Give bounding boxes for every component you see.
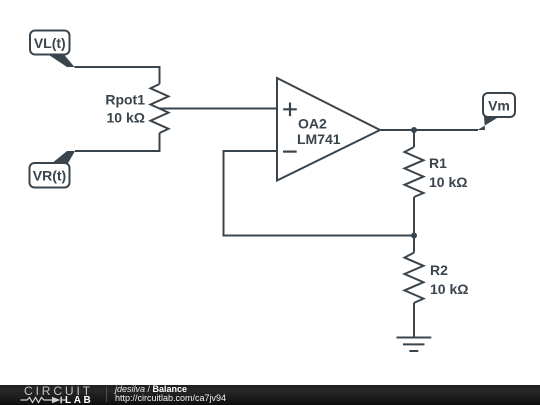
svg-text:Vm: Vm bbox=[488, 98, 510, 114]
CircuitLab logo wordmark CIRCUIT bbox=[24, 386, 93, 396]
svg-text:Rpot1: Rpot1 bbox=[105, 92, 145, 108]
resistor R2 bbox=[405, 253, 424, 303]
wire R2 bottom to ground bbox=[413, 303, 415, 338]
wire output node to R1 top bbox=[413, 130, 415, 147]
svg-text:R1: R1 bbox=[429, 155, 447, 171]
resistor R1 bbox=[405, 147, 424, 197]
svg-text:10 kΩ: 10 kΩ bbox=[107, 110, 145, 126]
CircuitLab logo wordmark LAB bbox=[65, 396, 93, 405]
potentiometer Rpot1 bbox=[151, 84, 169, 133]
wire VL(t) flag to Rpot1 top terminal bbox=[75, 67, 160, 84]
wire op-amp output to Vm flag bbox=[380, 129, 478, 131]
op-amp OA2 body bbox=[277, 78, 380, 181]
op-amp + input marker bbox=[283, 103, 297, 117]
svg-text:LM741: LM741 bbox=[297, 131, 341, 147]
ground bbox=[397, 338, 432, 352]
node flag VL(t) bbox=[30, 31, 75, 68]
wire junction node to R2 top bbox=[413, 236, 415, 253]
svg-text:OA2: OA2 bbox=[298, 116, 327, 132]
svg-text:VL(t): VL(t) bbox=[34, 35, 66, 51]
junction node at op-amp output bbox=[411, 127, 417, 133]
svg-text:R2: R2 bbox=[430, 262, 448, 278]
footer author/title line bbox=[115, 385, 187, 394]
op-amp - input marker bbox=[283, 151, 297, 153]
svg-text:10 kΩ: 10 kΩ bbox=[429, 174, 467, 190]
wire Rpot1 wiper to op-amp + input bbox=[160, 108, 278, 110]
footer url line bbox=[115, 394, 226, 403]
svg-text:10 kΩ: 10 kΩ bbox=[430, 281, 468, 297]
svg-text:VR(t): VR(t) bbox=[33, 168, 66, 184]
junction node between R1 and R2 bbox=[411, 233, 417, 239]
wire op-amp - input feedback (to R1/R2 junction) bbox=[224, 151, 415, 236]
wire Rpot1 bottom terminal to VR(t) flag bbox=[75, 133, 160, 151]
node flag VR(t) bbox=[30, 151, 76, 188]
node flag Vm bbox=[478, 93, 516, 130]
CircuitLab logo resistor-diode glyph bbox=[19, 395, 67, 405]
wire R1 bottom to junction node bbox=[413, 197, 415, 236]
footer bar bbox=[0, 385, 540, 405]
footer separator bbox=[106, 387, 107, 402]
